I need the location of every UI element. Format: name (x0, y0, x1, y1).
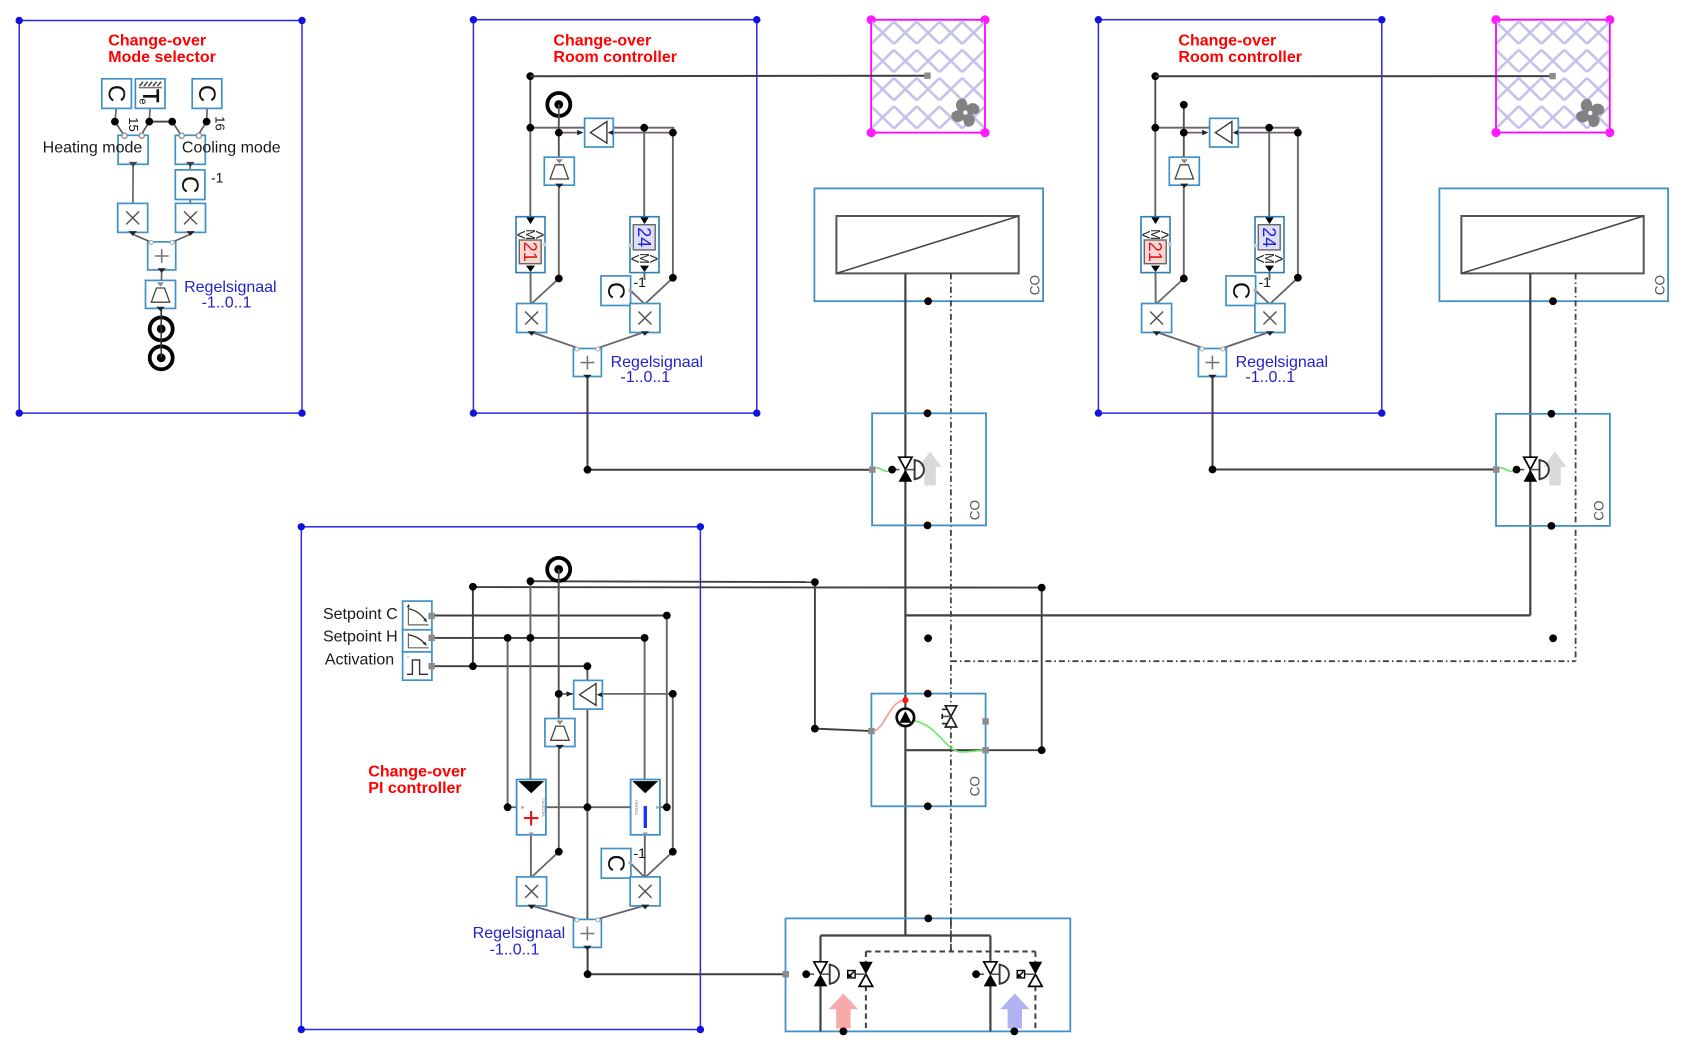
wire loop upper horizontal (530, 580, 815, 583)
pipe: supply header (821, 934, 991, 936)
junction comparator in (555, 690, 563, 698)
svg-text:Mode selector: Mode selector (108, 49, 216, 66)
wire: top node down (529, 76, 531, 128)
cooling setpoint block 24 (628, 217, 659, 273)
svg-text:-1..0..1: -1..0..1 (620, 369, 670, 386)
stub setpoint24 out (644, 273, 646, 280)
multiplier X2 (630, 304, 660, 336)
terminal room 1 (924, 73, 930, 79)
junction H2 (527, 634, 535, 642)
wire C2 to node (206, 107, 209, 122)
multiplier X2 (630, 877, 660, 909)
multiplier X1 (1142, 304, 1172, 336)
pump group CO frame (871, 694, 985, 807)
junction corner (811, 578, 819, 586)
junction C end (663, 612, 671, 620)
frame: Change-over Mode selector box (19, 21, 302, 414)
wire Cooling out to C3 (189, 164, 191, 170)
wire X1 to adder (1156, 332, 1209, 350)
distribution group frame (786, 918, 1071, 1031)
wire X2 to adder (592, 332, 645, 350)
flow direction arrow (gray) (1544, 451, 1567, 485)
svg-text:Activation: Activation (325, 652, 394, 669)
comparator (difference) block (1210, 118, 1239, 147)
anchor dot right (1549, 634, 1557, 642)
pipe: drop to valve L (819, 936, 821, 963)
pump signal terminal (868, 728, 874, 734)
wire down to setpoint 21 (1154, 128, 1156, 218)
anchor dot bottom right (1010, 1028, 1018, 1036)
wire: room temp down to limiter (1183, 105, 1185, 158)
wire Activation riser (472, 587, 474, 666)
port Activation (428, 663, 434, 669)
junction PI+ left (504, 803, 512, 811)
anchor dot radiator2 (1549, 297, 1557, 305)
pipe: dashed below R (1034, 986, 1036, 1032)
wire: top node down (1154, 76, 1156, 128)
junction signal corner 2 (1209, 466, 1217, 474)
wire Setpoint C down to I right (666, 616, 668, 808)
balancing valve (942, 706, 957, 727)
arrowhead into comparator (577, 130, 583, 135)
pipe: dashed drop L (865, 952, 867, 963)
wire X2 to adder (170, 234, 191, 243)
anchor dot left (924, 634, 932, 642)
arrowhead into comparator (567, 691, 573, 696)
wire limiter out down (1183, 186, 1185, 279)
svg-text:Cooling mode: Cooling mode (182, 140, 281, 157)
wire diag to X2 (645, 278, 673, 304)
adder block (573, 347, 601, 379)
supply temperature sensor port (547, 558, 570, 581)
svg-text:Room controller: Room controller (553, 49, 677, 66)
PI cooling block (I) (631, 780, 661, 835)
constant block C (gain -1) (1226, 276, 1256, 306)
junction node 15 (111, 118, 119, 126)
wire X2 to adder (593, 906, 644, 921)
signal terminal (1493, 466, 1499, 472)
pipe: return dashed vertical left (950, 273, 952, 951)
heating setpoint block 21 (1141, 217, 1172, 273)
pipe: dashed inlet (950, 918, 952, 951)
wire node to Cooling in2 (198, 122, 207, 136)
limiter block (1169, 157, 1199, 188)
wire diag to X2 (1270, 278, 1298, 304)
wire Activation (431, 665, 587, 667)
wire sensor down to limiter (558, 582, 560, 719)
svg-text:-1: -1 (634, 274, 647, 290)
Setpoint H curve block (403, 630, 432, 652)
wire comparator right input (1238, 132, 1298, 134)
svg-text:-1..0..1: -1..0..1 (1245, 369, 1295, 386)
junction loop upper (527, 577, 535, 585)
valve group CO 1 (872, 413, 986, 525)
pipe: supply horizontal interconnect (905, 614, 1530, 616)
wire: room temp down to limiter (558, 118, 560, 158)
red signal dot (902, 697, 908, 703)
port dot on constant C (1253, 288, 1257, 292)
heat exchanger CO 1 (fan coil) (814, 188, 1043, 301)
junction H1 (504, 634, 512, 642)
anchor dot bottom box top (924, 915, 932, 923)
wire down to setpoint 24 (1268, 128, 1270, 218)
junction I right (663, 803, 671, 811)
room zone 1 (867, 15, 990, 137)
wire diag to X2 (645, 852, 673, 878)
room temperature sensor port (547, 93, 570, 116)
junction corner4 (1038, 746, 1046, 754)
svg-text:15: 15 (126, 117, 141, 131)
wire into comparator apex (1184, 132, 1204, 134)
pipe: pump box branch to right (905, 749, 985, 751)
wire Heating out to multiplier X1 (132, 164, 134, 204)
red pump signal wire (872, 700, 903, 731)
multiplier X2 (176, 203, 206, 235)
multiplier X1 (118, 203, 148, 235)
outdoor temp sensor Te box (135, 79, 165, 109)
junction output corner (584, 970, 592, 978)
anchor dot bottom (924, 522, 932, 530)
valve L signal dot (802, 970, 810, 978)
comparator (difference) block (585, 118, 614, 147)
wire C3 to multiplier X2 (189, 199, 191, 204)
limiter block (146, 280, 176, 311)
green pump feedback wire (914, 721, 985, 753)
junction node 16 (203, 118, 211, 126)
junction right low (669, 848, 677, 856)
wire through sensor ring (558, 105, 560, 120)
junction node B (168, 118, 176, 126)
wire: loop to pump box right (986, 588, 1042, 751)
junction loop left (469, 583, 477, 591)
junction Activation end (584, 662, 592, 670)
cooling setpoint block 24 (1253, 217, 1284, 273)
junction node Te (145, 118, 153, 126)
junction A1 (526, 124, 534, 132)
wire: RC2 control signal to valve (1213, 377, 1496, 469)
wire control signal to valve group (588, 949, 786, 975)
svg-text:-1..0..1: -1..0..1 (490, 942, 540, 959)
port dot on constant C (628, 861, 632, 865)
wire down to setpoint 21 (529, 128, 531, 218)
frame: Room controller 2 box (1098, 20, 1381, 413)
svg-text:-1: -1 (1259, 274, 1272, 290)
svg-text:Change-over: Change-over (1178, 33, 1276, 50)
limiter block (544, 157, 574, 188)
wire X1 to adder (531, 906, 582, 921)
wire I out to X2 (644, 835, 646, 878)
svg-text:16: 16 (213, 116, 228, 130)
wire right branch down (1297, 133, 1299, 278)
wire Setpoint H (431, 637, 644, 639)
wire into comparator apex (559, 693, 578, 695)
junction right (1294, 129, 1302, 137)
anchor dot bottom (1548, 522, 1556, 530)
heating flow arrow (pink) (829, 994, 858, 1029)
green control wire (1496, 468, 1517, 471)
comparator block Cooling mode (175, 133, 205, 167)
valve R signal dot (972, 970, 980, 978)
anchor dot bottom left (840, 1028, 848, 1036)
room zone 1 hatch fill (872, 21, 984, 132)
svg-text:Change-over: Change-over (368, 764, 466, 781)
junction temp (555, 129, 563, 137)
wire adder to limiter (161, 270, 163, 281)
green control wire (872, 468, 892, 471)
wire comparator out right (602, 693, 672, 695)
pipe: below valve R (989, 986, 991, 1032)
svg-text:Regelsignaal: Regelsignaal (184, 279, 277, 296)
junction top (1151, 72, 1159, 80)
arrowhead into comparator (1202, 130, 1208, 135)
svg-text:Heating mode: Heating mode (43, 140, 143, 157)
port dot on constant C (628, 288, 632, 292)
wire A across comparator (530, 127, 644, 129)
junction limiter out (1180, 275, 1188, 283)
wire: RC1 control signal to valve (588, 377, 871, 469)
svg-text:-1: -1 (634, 845, 647, 861)
wire PI+ out to X1 (530, 835, 532, 878)
Setpoint C curve block (403, 601, 432, 630)
port Setpoint H (428, 635, 434, 641)
junction A1 (1151, 124, 1159, 132)
pipe: below valve L (819, 986, 821, 1032)
wire: RC1 to room 1 sensor (530, 75, 924, 78)
stub I right port (659, 806, 666, 808)
svg-text:CO: CO (1591, 500, 1606, 520)
svg-text:CO: CO (967, 500, 982, 520)
wire H to PI+ left port (507, 638, 509, 807)
wire diag to X1 (1156, 279, 1184, 305)
junction comparator out (669, 690, 677, 698)
valve group CO 2 (1496, 414, 1610, 526)
junction limiter low (555, 848, 563, 856)
comparator block Heating mode (118, 133, 148, 167)
junction limiter out (555, 275, 563, 283)
wire loop lower horizontal (473, 586, 1042, 589)
fan icon room 2 (1573, 96, 1607, 130)
wire right branch down (672, 694, 674, 852)
room temperature node (1180, 101, 1188, 109)
terminal room 2 (1549, 73, 1555, 79)
anchor dot radiator1 (924, 297, 932, 305)
wire limiter to output ports (160, 308, 162, 358)
svg-text:Setpoint C: Setpoint C (323, 606, 398, 623)
junction Activation (469, 662, 477, 670)
port Setpoint C (428, 613, 434, 619)
junction A2 (640, 124, 648, 132)
motor valve right (984, 962, 1009, 987)
output port circle 1 (150, 317, 173, 340)
signal terminal bottom box (783, 971, 789, 977)
stub PI+ left port (508, 806, 517, 808)
svg-text:-1: -1 (211, 170, 224, 186)
wire node to Cooling in1 (172, 122, 181, 136)
multiplier X2 (1255, 304, 1285, 336)
adder block (1198, 347, 1226, 379)
port right lower (982, 747, 988, 753)
output port circle 2 (150, 346, 173, 369)
wire jog to setpoint side (1269, 128, 1298, 133)
anchor dot pump bottom (924, 802, 932, 810)
junction A2 (1265, 124, 1273, 132)
multiplier X1 (517, 877, 547, 909)
anchor dot top (924, 409, 932, 417)
svg-text:Regelsignaal: Regelsignaal (473, 925, 566, 942)
svg-text:Setpoint H: Setpoint H (323, 629, 398, 646)
junction right low (669, 274, 677, 282)
wire X2 to adder (1217, 332, 1270, 350)
valve signal dot (888, 466, 896, 474)
junction right low (1294, 274, 1302, 282)
check valve right (1017, 962, 1042, 987)
wire C out to X2 (1255, 290, 1269, 304)
svg-text:Change-over: Change-over (553, 33, 651, 50)
heating setpoint block 21 (516, 217, 547, 273)
control valve in valve group CO 2 (1524, 457, 1549, 482)
wire: pump speed signal (815, 582, 872, 731)
junction mid (584, 803, 592, 811)
junction H end (641, 634, 649, 642)
anchor dot pump top (924, 690, 932, 698)
pipe: return dashed vertical right (1575, 273, 1577, 661)
pipe: supply main vertical left (904, 273, 906, 935)
stub setpoint24 out (1269, 273, 1271, 280)
pipe: supply vertical right (1529, 273, 1531, 615)
wire Activation down through comparator (586, 666, 588, 920)
wire limiter out down (558, 186, 560, 279)
junction corner3 (1038, 584, 1046, 592)
wire H riser / down to PI+ top (529, 581, 531, 780)
wire diag to X1 (531, 279, 559, 305)
valve signal dot (1513, 466, 1521, 474)
cooling flow arrow (blue) (1000, 994, 1029, 1029)
check valve left (848, 962, 873, 987)
pipe: return dashed horizontal interconnect (951, 660, 1576, 662)
svg-text:Change-over: Change-over (108, 33, 206, 50)
room zone 2 hatch fill (1497, 21, 1609, 132)
wire A across comparator (1155, 127, 1269, 129)
wire into comparator apex (559, 132, 579, 134)
constant block C (value 15) (102, 79, 132, 109)
wire PI+ right to I left (546, 806, 631, 808)
wire node to Heating in1 (115, 122, 125, 136)
fan icon room 1 (949, 96, 983, 130)
constant block C (value 16) (192, 79, 222, 109)
pipe: dashed below L (865, 986, 867, 1032)
wire node to Heating in2 (141, 122, 150, 136)
circulation pump (897, 709, 914, 726)
wire C out to X2 (630, 290, 644, 304)
flow direction arrow (gray) (919, 451, 942, 485)
wire: RC2 to room 2 sensor (1155, 75, 1549, 77)
PI heating block (+) (517, 780, 547, 836)
pipe: dashed header (866, 951, 1036, 953)
wire limiter out down (558, 748, 560, 852)
constant block C (gain -1) (601, 849, 631, 879)
frame: Change-over PI controller box (301, 527, 700, 1030)
pipe: drop to valve R (989, 936, 991, 963)
control valve in valve group CO 1 (899, 457, 924, 482)
frame: Room controller 1 box (473, 20, 756, 413)
junction top (526, 72, 534, 80)
room zone 2 (1491, 15, 1614, 137)
wire diag to X1 (531, 852, 559, 878)
wire through output circles (160, 308, 162, 358)
port right upper (982, 718, 988, 724)
svg-text:e: e (136, 98, 148, 104)
wire setpoint21 to X1 (530, 273, 532, 304)
limiter block (545, 719, 575, 750)
anchor dot top (1548, 410, 1556, 418)
wire jog to setpoint side (644, 128, 673, 133)
wire X1 to adder (531, 332, 584, 350)
wire H down to I top (644, 638, 646, 780)
adder block (148, 240, 176, 272)
junction right (669, 129, 677, 137)
wire C1 to node (115, 107, 116, 121)
wire through sensor ring (558, 569, 560, 584)
pipe: dashed drop R (1034, 952, 1036, 963)
wire Setpoint C (431, 615, 666, 617)
svg-text:-1..0..1: -1..0..1 (202, 295, 252, 312)
constant block C (gain -1) (601, 276, 631, 306)
svg-text:Room controller: Room controller (1178, 49, 1302, 66)
junction signal corner 1 (584, 466, 592, 474)
svg-text:CO: CO (967, 776, 982, 796)
wire X1 to adder (133, 234, 154, 243)
wire Te to node (148, 108, 151, 122)
wire right branch down (672, 133, 674, 278)
comparator (difference) block (574, 680, 603, 709)
constant block C3 (gain -1) (175, 170, 205, 200)
wire down to setpoint 24 (643, 128, 645, 218)
motor valve left (814, 962, 839, 987)
multiplier X1 (517, 304, 547, 336)
wire setpoint21 to X1 (1155, 273, 1157, 304)
signal terminal (869, 466, 875, 472)
wire C out to X2 (630, 863, 645, 878)
Activation pulse block (403, 652, 432, 680)
wire node Te to node B (149, 121, 172, 123)
junction temp (1180, 129, 1188, 137)
adder block (573, 918, 601, 950)
heat exchanger CO 2 (fan coil) (1439, 188, 1668, 301)
svg-text:PI controller: PI controller (368, 780, 461, 797)
junction corner2 (811, 725, 819, 733)
wire comparator right input (613, 132, 673, 134)
